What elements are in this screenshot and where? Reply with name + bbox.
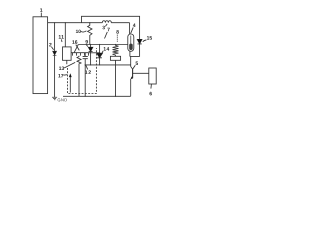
leader for label 6 [150,84,153,89]
dashed box 17 [68,48,97,94]
coil L3 [102,21,111,23]
wire C (mid wire y=44.5) [78,44,128,46]
leader for label 8 [116,35,118,43]
leader for label 15 [143,40,147,42]
diode 2 [53,51,57,55]
base bar of Q5 [132,69,134,79]
leader for label 16 [76,45,80,51]
ground [52,97,57,99]
wire B from block 1 to glow plug [48,23,130,34]
label 17 [58,74,63,77]
label 7 [107,28,109,31]
label 9 [85,40,87,44]
label 1 [40,8,42,11]
capacitor C12 [83,53,88,97]
leader for label 13 [64,62,75,68]
resistor R11 (box) [63,47,72,60]
element box under coil [110,56,120,60]
arrow marker inside box 17 [69,77,71,93]
label 11 [59,35,64,38]
transistor Q5 [131,67,133,97]
wire A (top wire) [82,16,140,39]
resistor R13 [77,56,81,97]
wire D (y=64.9) [85,64,131,66]
plug bottom lead [129,51,131,56]
label 14 [104,47,110,50]
leader for label 1 [40,13,42,17]
label 4 [133,24,136,27]
diode 9 [88,45,92,65]
leader for label 3 [105,24,107,27]
diode 14 [97,45,103,65]
node dot bus / plug lead [115,96,116,97]
node dot wire D / diode 14 [99,64,100,65]
block 1 [33,17,48,94]
control box 6 [149,68,156,84]
heater coil 7/8 [113,45,119,57]
lead of R11 to wire B [64,23,66,47]
node dot wire B / R11 lead [65,22,66,23]
leader for label 2 [52,47,54,50]
leader for label 7 [105,32,108,39]
leader for label 17 [63,74,67,77]
gate diagonal into contact 16 [74,45,78,53]
leader for label 14 [102,51,103,53]
label 5 [136,62,138,65]
junction wire under plug [130,56,140,58]
plug electrode [130,36,132,45]
glow plug 4 (capsule) [128,34,134,51]
collector riser [130,57,132,67]
label 10 [76,30,81,33]
diode 15 [137,39,142,56]
label 3 [102,26,104,30]
leader for label 4 [131,27,134,33]
node dot wire B / R10 lead [89,22,90,23]
plug heater tip [129,44,133,50]
label 12 [85,70,91,73]
label 13 [59,67,64,71]
node dot wire C / R10 [90,44,91,45]
node dot bus / C12 lead [85,96,86,97]
stub under R11 [66,60,68,64]
leader for label 10 [81,31,87,32]
leader for label 12 [86,65,88,69]
left bus wire [54,23,56,98]
wire from contact to diode 14 [90,52,100,54]
label 8 [116,30,118,34]
leader for label 5 [133,65,135,69]
node dot wire D / C12 lead [85,64,86,65]
node dot wire B / left bus [54,22,55,23]
label 15 [147,36,152,39]
label 6 [149,92,151,96]
label 16 [72,40,77,44]
base wire of Q5 [133,72,149,74]
leader for label 9 [86,44,88,46]
label GND [58,98,67,101]
label 2 [49,43,51,46]
emitter arrow of Q5 [131,77,133,79]
node dot wire C / coil [115,44,116,45]
node dot wire C / diode 14 [99,44,100,45]
lead from box to bus [115,60,117,96]
leader for label 11 [60,39,63,42]
bottom bus wire [63,95,131,97]
node dot wire D / diode 9 [90,64,91,65]
contact 16 (bar with ticks) [71,53,89,56]
resistor R10 [88,23,92,45]
